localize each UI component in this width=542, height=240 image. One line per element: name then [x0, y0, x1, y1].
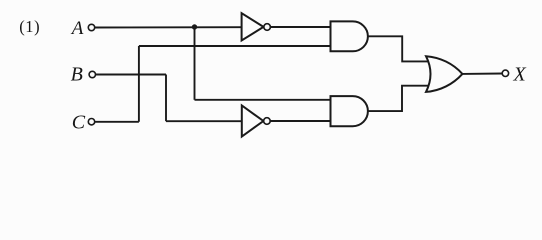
inverter U2 triangle (bottom)	[242, 106, 264, 137]
svg-text:X: X	[513, 64, 527, 86]
inverter U1 triangle	[242, 13, 264, 40]
svg-text:A: A	[70, 18, 84, 39]
wire AND U1 output	[368, 36, 429, 61]
OR gate U4	[426, 56, 462, 92]
input terminal C	[88, 119, 94, 125]
input terminal A	[88, 24, 94, 30]
wire inverter U2 output to AND U3	[270, 120, 330, 122]
wire inverter U1 output to AND U1	[271, 26, 331, 28]
junction on net A	[192, 24, 197, 29]
inverter U2 bubble	[264, 118, 271, 125]
input terminal B	[89, 71, 95, 77]
svg-text:B: B	[71, 63, 83, 85]
wire C vertical riser	[138, 46, 140, 122]
output terminal X	[502, 70, 508, 76]
wire AND U3 output	[368, 86, 429, 111]
AND gate U3 (bottom)	[331, 96, 368, 126]
wire B to inverter U2	[166, 120, 242, 122]
wire C horizontal	[95, 121, 139, 123]
inverter U1 bubble	[264, 24, 271, 31]
wire OR output	[462, 73, 502, 75]
AND gate U1 (top)	[331, 21, 368, 51]
wire net A vertical drop	[194, 27, 196, 100]
wire net A to AND gate U3 upper input	[195, 99, 331, 101]
svg-text:C: C	[72, 112, 86, 134]
wire A to inverter U1	[95, 26, 242, 28]
wire B horizontal	[96, 74, 167, 76]
svg-text:(1): (1)	[19, 17, 40, 36]
wire C to AND gate U1 lower input	[139, 45, 331, 47]
wire B vertical drop	[165, 75, 167, 122]
